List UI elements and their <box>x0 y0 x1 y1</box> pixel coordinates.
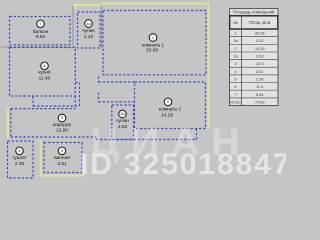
svg-text:12.90: 12.90 <box>56 128 68 134</box>
svg-text:туалет: туалет <box>12 156 28 161</box>
svg-text:Итого: Итого <box>230 99 240 104</box>
svg-text:3.51: 3.51 <box>57 161 67 167</box>
svg-text:11.4: 11.4 <box>256 84 264 89</box>
svg-text:3.51: 3.51 <box>256 69 264 74</box>
svg-text:ванная: ванная <box>54 156 70 161</box>
svg-text:ID 325018847: ID 325018847 <box>80 148 286 181</box>
svg-text:3: 3 <box>234 61 236 66</box>
svg-text:12.9: 12.9 <box>256 61 264 66</box>
svg-text:5: 5 <box>18 148 20 153</box>
svg-text:Площадь помещений: Площадь помещений <box>233 10 274 15</box>
svg-text:7: 7 <box>39 21 41 26</box>
svg-text:2: 2 <box>234 46 236 51</box>
svg-text:Площ. кв.м: Площ. кв.м <box>249 20 270 25</box>
svg-text:2: 2 <box>167 99 169 104</box>
svg-text:№: № <box>233 20 238 25</box>
svg-text:2.36: 2.36 <box>15 161 25 167</box>
svg-text:2.36: 2.36 <box>256 77 264 82</box>
svg-text:14.29: 14.29 <box>161 113 173 119</box>
svg-text:1: 1 <box>234 31 236 36</box>
svg-text:кухня: кухня <box>38 71 51 76</box>
svg-text:7: 7 <box>234 92 236 97</box>
svg-text:2.42: 2.42 <box>256 38 264 43</box>
svg-text:5.64: 5.64 <box>36 34 46 40</box>
svg-text:комната 2: комната 2 <box>159 107 181 113</box>
svg-text:1: 1 <box>152 35 154 40</box>
svg-text:74.63: 74.63 <box>255 99 265 104</box>
svg-text:коридор: коридор <box>53 123 72 128</box>
svg-text:11.40: 11.40 <box>39 76 51 82</box>
svg-text:20.08: 20.08 <box>255 31 265 36</box>
svg-text:5: 5 <box>234 77 236 82</box>
svg-text:2.42: 2.42 <box>84 34 94 40</box>
svg-text:5.64: 5.64 <box>256 92 264 97</box>
svg-text:20.08: 20.08 <box>146 48 158 54</box>
svg-text:14.29: 14.29 <box>255 46 265 51</box>
svg-text:2.03: 2.03 <box>256 54 264 59</box>
svg-text:чулан: чулан <box>82 29 95 34</box>
svg-text:6: 6 <box>43 63 45 68</box>
svg-text:6: 6 <box>234 84 236 89</box>
svg-text:3: 3 <box>61 115 63 120</box>
